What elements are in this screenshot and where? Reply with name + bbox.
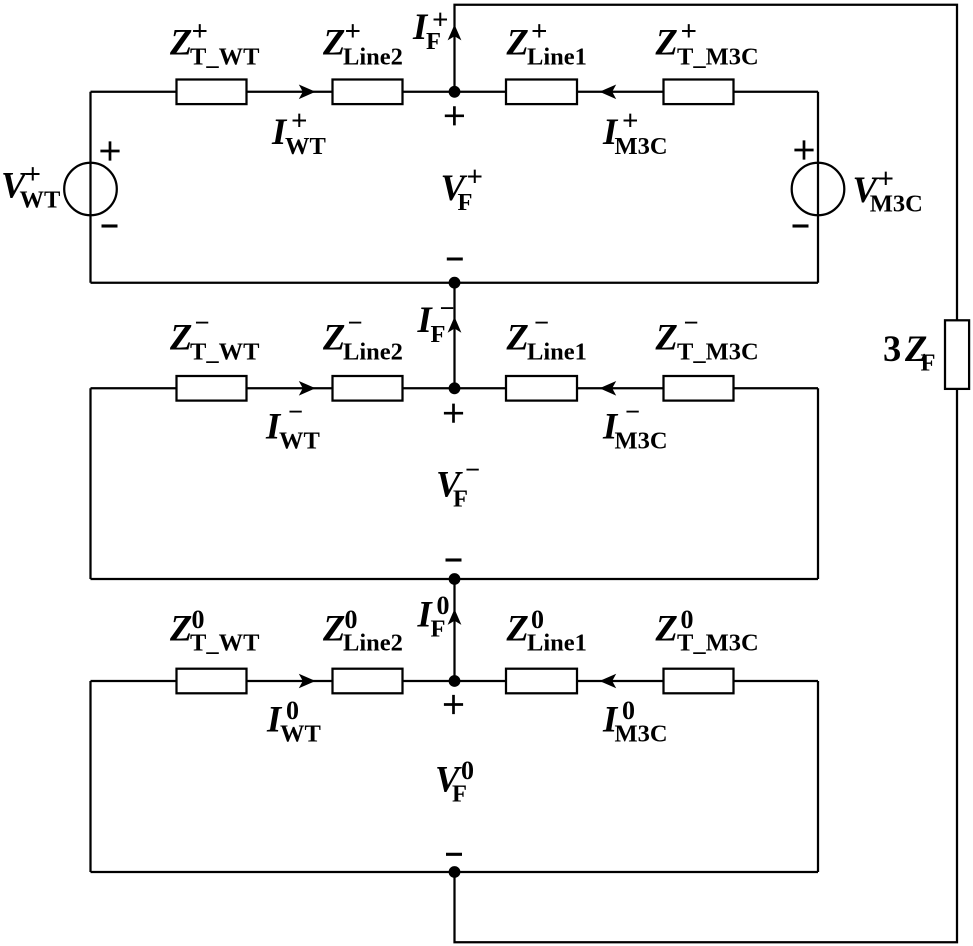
svg-text:−: − (440, 293, 455, 323)
wire zero-sequence network top conductor (91, 680, 819, 682)
label V_WT+ (1, 159, 60, 214)
voltage source V_WT+ polarity + mark (100, 141, 119, 160)
current arrow I_M3C0 pointing left (600, 674, 617, 689)
svg-text:−: − (625, 397, 640, 427)
svg-text:−: − (534, 308, 549, 338)
wire zero-sequence network left edge (89, 681, 91, 872)
label 3Z_F (883, 328, 935, 377)
svg-text:Z: Z (655, 22, 678, 63)
label V_F0 (435, 756, 474, 808)
svg-text:Z: Z (506, 22, 529, 63)
node V_F- - polarity mark (446, 558, 462, 561)
current arrow I_WT0 pointing right (299, 674, 316, 689)
node V_F- + polarity mark (444, 404, 463, 423)
label Z_T_WT0 (169, 605, 259, 657)
voltage source V_M3C+ polarity + mark (794, 140, 813, 159)
label Z_Line20 (322, 605, 403, 657)
wire zero-sequence network right edge (817, 681, 819, 872)
svg-text:−: − (348, 308, 363, 338)
label Z_T_M3C- (655, 308, 759, 366)
svg-text:Line2: Line2 (343, 44, 403, 71)
resistor Z_Line2- (negative-sequence) (333, 376, 403, 401)
svg-text:Z: Z (506, 607, 529, 648)
resistor Z_Line20 (zero-sequence) (333, 669, 403, 694)
voltage source V_M3C+ (circle) (792, 163, 845, 216)
svg-text:F: F (458, 189, 473, 216)
svg-text:T_WT: T_WT (190, 629, 259, 656)
svg-text:WT: WT (285, 133, 326, 160)
label I_WT- (265, 397, 320, 455)
label Z_Line2+ (322, 16, 403, 71)
label Z_Line1+ (506, 16, 587, 71)
node V_F0 + polarity mark (444, 695, 463, 714)
wire top rail from fault node up and across to fault impedance branch (455, 5, 958, 320)
svg-text:Z: Z (506, 317, 529, 358)
svg-text:F: F (452, 781, 467, 808)
current arrow I_WT- pointing right (299, 381, 316, 396)
label I_M3C0 (602, 696, 668, 748)
svg-text:Line2: Line2 (343, 339, 403, 366)
node fault + terminal (positive-sequence) (449, 86, 461, 98)
svg-text:F: F (431, 616, 446, 643)
svg-text:Line1: Line1 (527, 44, 587, 71)
svg-text:WT: WT (20, 187, 61, 214)
svg-text:Z: Z (169, 607, 192, 648)
node fault - terminal (negative-sequence) (449, 573, 461, 585)
svg-text:Z: Z (322, 607, 345, 648)
label I_F- (417, 293, 455, 348)
svg-text:T_M3C: T_M3C (677, 629, 759, 656)
wire link negative-seq bottom node to zero-seq top node (453, 579, 455, 681)
resistor Z_T_M3C+ (positive-sequence) (664, 80, 734, 105)
svg-text:Z: Z (655, 317, 678, 358)
svg-text:−: − (684, 308, 699, 338)
resistor Z_T_WT+ (positive-sequence) (177, 80, 247, 105)
label I_M3C+ (602, 105, 668, 160)
label V_F+ (441, 161, 484, 216)
wire negative-sequence network top conductor (91, 387, 819, 389)
svg-text:T_M3C: T_M3C (677, 339, 759, 366)
svg-text:M3C: M3C (615, 428, 668, 455)
svg-text:Z: Z (655, 607, 678, 648)
svg-text:−: − (195, 308, 210, 338)
wire negative-sequence network left edge (89, 388, 91, 579)
svg-text:WT: WT (279, 428, 320, 455)
svg-text:Line1: Line1 (527, 339, 587, 366)
current arrow I_M3C+ pointing left (600, 85, 617, 100)
wire zero-sequence network bottom conductor (91, 871, 819, 873)
resistor 3Z_F (fault impedance) (945, 320, 969, 389)
resistor Z_Line1- (negative-sequence) (506, 376, 577, 401)
svg-text:M3C: M3C (615, 721, 668, 748)
svg-text:F: F (426, 28, 441, 55)
voltage source V_WT+ polarity - mark (102, 224, 118, 227)
svg-text:Z: Z (322, 22, 345, 63)
current arrow I_M3C- pointing left (600, 381, 617, 396)
label Z_Line1- (506, 308, 587, 366)
resistor Z_Line2+ (positive-sequence) (333, 80, 403, 105)
svg-text:T_WT: T_WT (190, 44, 259, 71)
label V_F- (436, 455, 480, 513)
node V_F0 - polarity mark (446, 853, 462, 856)
label I_WT+ (271, 105, 326, 160)
svg-text:−: − (288, 397, 303, 427)
current arrow I_F+ pointing up (448, 25, 462, 41)
svg-text:Z: Z (322, 317, 345, 358)
svg-text:F: F (453, 486, 468, 513)
resistor Z_T_M3C- (negative-sequence) (664, 376, 734, 401)
label Z_Line2- (322, 308, 403, 366)
wire link positive-seq bottom node to negative-seq top node (453, 283, 455, 389)
node fault + terminal (negative-sequence) (449, 382, 461, 394)
wire positive-sequence network right edge (817, 92, 819, 283)
resistor Z_Line1+ (positive-sequence) (506, 80, 577, 105)
label Z_T_WT+ (169, 16, 259, 71)
wire positive-sequence network bottom conductor (91, 282, 819, 284)
current arrow I_WT+ pointing right (299, 85, 316, 100)
label Z_Line10 (506, 605, 587, 657)
label Z_T_WT- (169, 308, 259, 366)
current arrow I_F- pointing up (448, 317, 462, 333)
svg-text:M3C: M3C (615, 133, 668, 160)
node fault + terminal (zero-sequence) (449, 675, 461, 687)
label I_F+ (412, 4, 449, 55)
svg-text:Line1: Line1 (527, 629, 587, 656)
wire bottom rail from zero-seq bottom node down and across to fault impedance branch (455, 388, 958, 942)
svg-text:Z: Z (169, 22, 192, 63)
svg-text:WT: WT (280, 721, 321, 748)
svg-text:3: 3 (883, 328, 901, 369)
node V_F+ - polarity mark (447, 257, 463, 260)
label I_WT0 (266, 696, 321, 748)
wire negative-sequence network bottom conductor (91, 578, 819, 580)
svg-text:T_WT: T_WT (190, 339, 259, 366)
label Z_T_M3C0 (655, 605, 759, 657)
voltage source V_M3C+ polarity - mark (793, 224, 809, 227)
voltage source V_WT+ (circle) (64, 163, 117, 216)
label V_M3C+ (853, 163, 923, 217)
svg-text:M3C: M3C (870, 190, 923, 217)
node fault - terminal (zero-sequence) (449, 866, 461, 878)
svg-text:Line2: Line2 (343, 629, 403, 656)
svg-text:F: F (921, 350, 936, 377)
label I_M3C- (602, 397, 668, 455)
svg-text:Z: Z (169, 317, 192, 358)
node V_F+ + polarity mark (445, 106, 464, 125)
resistor Z_T_WT- (negative-sequence) (177, 376, 247, 401)
wire positive-sequence network top conductor (91, 91, 819, 93)
label Z_T_M3C+ (655, 16, 759, 71)
resistor Z_T_M3C0 (zero-sequence) (664, 669, 734, 694)
wire negative-sequence network right edge (817, 388, 819, 579)
node fault - terminal (positive-sequence) (449, 277, 461, 289)
svg-text:F: F (431, 321, 446, 348)
svg-text:T_M3C: T_M3C (677, 44, 759, 71)
resistor Z_Line10 (zero-sequence) (506, 669, 577, 694)
wire positive-sequence network left edge (89, 92, 91, 283)
svg-text:−: − (465, 455, 480, 485)
resistor Z_T_WT0 (zero-sequence) (177, 669, 247, 694)
label I_F0 (417, 591, 450, 643)
current arrow I_F0 pointing up (448, 609, 462, 625)
